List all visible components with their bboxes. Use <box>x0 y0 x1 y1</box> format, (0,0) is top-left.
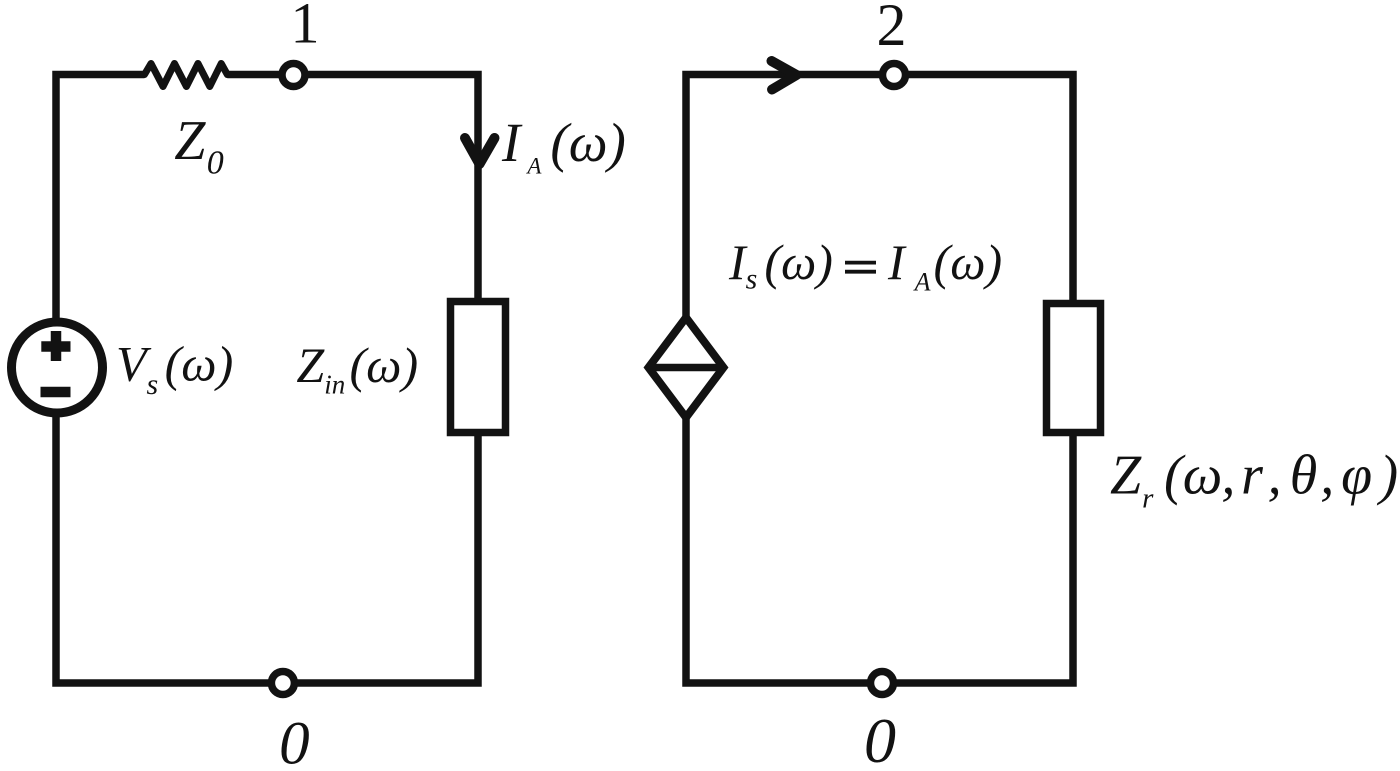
svg-text:IA(ω): IA(ω) <box>501 112 626 178</box>
svg-text:Vs(ω): Vs(ω) <box>116 336 233 401</box>
node 1 <box>282 64 305 87</box>
minus sign <box>41 387 71 398</box>
current arrow IA <box>465 138 495 164</box>
svg-text:1: 1 <box>291 0 320 56</box>
voltage source Vs <box>12 322 103 413</box>
equals sign <box>845 263 876 272</box>
svg-text:Zr(ω,r,θ,φ): Zr(ω,r,θ,φ) <box>1110 445 1398 515</box>
svg-text:0: 0 <box>864 705 896 771</box>
wire right-circuit loop <box>686 75 1073 684</box>
svg-text:2: 2 <box>877 0 907 58</box>
dependent current source Is diamond <box>649 318 724 418</box>
svg-text:Is(ω): Is(ω) <box>728 234 833 296</box>
svg-text:IA(ω): IA(ω) <box>887 234 1002 297</box>
resistor Z0 <box>145 64 228 87</box>
svg-text:0: 0 <box>279 711 310 771</box>
diamond chord <box>649 364 724 372</box>
node 0 left <box>271 672 294 695</box>
svg-text:Z0: Z0 <box>174 110 223 181</box>
svg-text:Zin(ω): Zin(ω) <box>296 337 418 400</box>
current direction arrow <box>772 61 797 90</box>
impedance Zin box <box>451 302 506 433</box>
plus sign <box>41 331 70 361</box>
impedance Zr box <box>1047 304 1101 433</box>
node 2 <box>883 64 906 87</box>
wire left-circuit loop <box>56 75 478 684</box>
node 0 right <box>871 672 894 695</box>
